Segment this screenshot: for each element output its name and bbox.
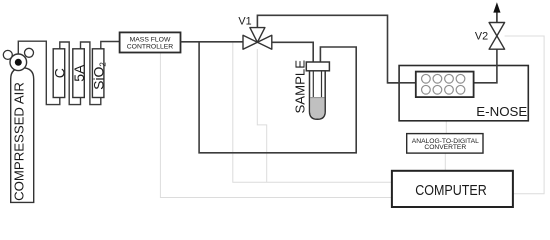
computer box [392,171,513,207]
sensor array box [416,72,474,98]
svg-text:MASS FLOW: MASS FLOW [130,36,171,43]
filter SiO2 [92,49,104,98]
sample dip tube [312,71,314,97]
faint line V1 to computer [257,49,266,182]
wire into sensor array [388,82,416,84]
faint line V2 to computer [505,36,544,194]
wire filter SiO2 to mass flow controller [101,42,120,49]
wire cylinder to filter C [18,41,60,104]
sample liquid [310,98,324,119]
svg-text:5A: 5A [71,64,87,82]
compressed air cylinder [11,68,34,203]
filter 5A [73,49,85,98]
ADC box [407,134,483,154]
svg-text:COMPUTER: COMPUTER [415,182,487,199]
faint line node A to computer [233,42,392,182]
sample cap [306,62,329,71]
svg-text:CONTROLLER: CONTROLLER [127,43,174,50]
svg-text:C: C [51,68,67,78]
svg-text:COMPRESSED AIR: COMPRESSED AIR [11,82,26,201]
chamber loop wire (sample bypass) [199,42,356,153]
wire filter C to filter 5A [60,42,81,105]
valve V2 [489,23,505,50]
faint line sensor to ADC [445,97,447,134]
cylinder valve body [10,54,27,71]
cylinder gauge left [3,50,12,59]
sensor circles row 2 [422,85,465,94]
valve V1 [243,28,272,50]
svg-text:V2: V2 [475,30,488,42]
sample tube outer [310,71,326,120]
wire sensor array to V2 [474,49,497,83]
svg-text:SAMPLE: SAMPLE [293,60,308,114]
wire V1 to sample inlet [272,42,313,62]
wire MFC to V1 [181,41,244,43]
mass flow controller box [120,32,181,52]
svg-text:CONVERTER: CONVERTER [424,144,466,151]
faint line ADC to computer [444,153,446,171]
faint line MFC to computer [160,53,392,198]
wire filter 5A to filter SiO2 [81,42,101,105]
wire V1 top to E-NOSE [257,15,415,83]
e-nose outer box [399,66,528,121]
cylinder valve dot [15,59,22,66]
exhaust arrow [496,9,498,23]
cylinder gauge right [25,48,34,57]
svg-text:V1: V1 [238,15,251,27]
svg-text:E-NOSE: E-NOSE [476,104,527,119]
filter C [53,49,64,98]
sensor circles row 1 [422,74,465,83]
